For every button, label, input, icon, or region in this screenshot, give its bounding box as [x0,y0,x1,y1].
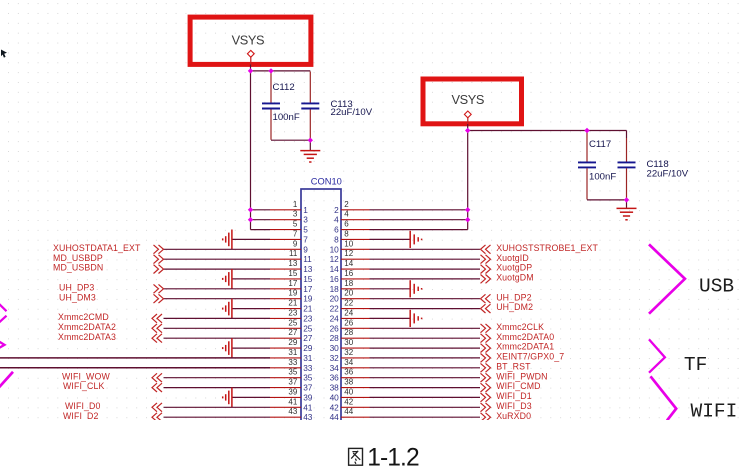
net label WIFI_PWDN chevron [481,373,491,382]
svg-text:29: 29 [303,343,313,353]
connector CON10 box [301,189,341,424]
svg-text:8: 8 [334,234,339,244]
net label WIFI_D3 chevron [481,403,491,412]
svg-text:4: 4 [334,215,339,225]
ground below C113 [300,151,320,162]
pin 39 stub [270,396,301,398]
svg-text:14: 14 [330,264,340,274]
svg-text:26: 26 [330,323,340,333]
pin 9 stub [270,248,301,250]
wire pin 39 to ground [232,396,270,398]
svg-text:35: 35 [303,373,313,383]
svg-text:27: 27 [288,328,297,337]
pin 23 stub [270,317,301,319]
capacitor C113 [301,72,319,140]
svg-text:23: 23 [303,313,313,323]
svg-text:37: 37 [303,383,313,393]
pin 3 stub [270,219,301,221]
pin 20 stub [341,298,370,300]
clipped chevron fragment C (left edge) [0,372,13,389]
pin numbers row 21/22 [288,299,353,314]
net label XuotgID chevron [481,255,491,264]
svg-text:1: 1 [303,205,308,215]
pin 13 stub [270,268,301,270]
wire pin 5 to VSYS1 [251,229,271,231]
pin numbers row 3/4 [293,210,349,225]
pin 2 stub [341,209,370,211]
svg-text:WIFI_WOW: WIFI_WOW [62,371,110,381]
wire pin 6 to VSYS2 [370,229,468,231]
svg-text:28: 28 [344,328,353,337]
junction pin 4 [465,217,470,222]
ground at pin 15 [223,269,232,289]
svg-text:30: 30 [330,343,340,353]
pin 4 stub [341,219,370,221]
svg-text:22uF/10V: 22uF/10V [647,169,689,180]
svg-text:27: 27 [303,333,313,343]
wire pin 40 [370,396,481,398]
wire pin 36 [370,377,481,379]
svg-text:44: 44 [344,407,353,416]
net label XuRXD0 chevron [481,413,491,422]
pin 42 stub [341,406,370,408]
svg-text:22uF/10V: 22uF/10V [331,107,373,118]
svg-text:18: 18 [330,284,340,294]
pin numbers row 41/42 [288,397,353,412]
pin numbers row 27/28 [288,328,353,343]
pin 17 stub [270,288,301,290]
svg-text:XUHOSTSTROBE1_EXT: XUHOSTSTROBE1_EXT [496,243,598,253]
svg-text:16: 16 [330,274,340,284]
svg-text:3: 3 [293,210,298,219]
svg-text:39: 39 [288,387,297,396]
net label BT_RST chevron [481,363,491,372]
net label Xmmc2CLK chevron [481,324,491,333]
svg-text:38: 38 [344,378,353,387]
svg-text:26: 26 [344,318,353,327]
pin 44 stub [341,416,370,418]
svg-text:40: 40 [330,392,340,402]
net label Xmmc2DATA0 chevron [481,334,491,343]
svg-text:35: 35 [288,368,297,377]
pin 38 stub [341,387,370,389]
svg-text:WIFI_D2: WIFI_D2 [63,411,99,420]
pin 12 stub [341,258,370,260]
pin 28 stub [341,337,370,339]
power port VSYS (left) diamond pin [247,50,254,57]
wire pin 27 [164,337,271,339]
pin numbers row 43/44 [288,407,353,422]
wire pin 37 [164,387,271,389]
pin 30 stub [341,347,370,349]
wire pin 19 [164,298,271,300]
wire C118 bottom to ground [626,200,628,208]
pin 37 stub [270,387,301,389]
svg-text:21: 21 [303,304,313,314]
WIFI port chevron [651,376,677,420]
svg-text:4: 4 [344,210,349,219]
wire pin 44 [370,416,481,418]
svg-text:29: 29 [288,338,297,347]
svg-text:31: 31 [288,348,297,357]
svg-text:38: 38 [330,383,340,393]
svg-text:40: 40 [344,387,353,396]
svg-text:34: 34 [330,363,340,373]
svg-text:10: 10 [330,244,340,254]
wire pin 43 [164,416,271,418]
net label WIFI_CMD chevron [481,383,491,392]
svg-text:UH_DP3: UH_DP3 [59,282,94,292]
clipped chevron fragment B (left edge) [0,342,5,349]
pin numbers row 5/6 [293,220,349,235]
pin 15 stub [270,278,301,280]
svg-text:22: 22 [344,299,353,308]
wire pin 30 [370,347,481,349]
svg-text:Xmmc2DATA1: Xmmc2DATA1 [496,342,554,352]
pin numbers row 37/38 [288,378,353,393]
svg-text:31: 31 [303,353,313,363]
svg-text:36: 36 [330,373,340,383]
pin 11 stub [270,258,301,260]
wire pin 33 to page edge [0,367,270,369]
junction pin 3 [248,217,253,222]
stray cursor mark [1,50,7,58]
net label WIFI_WOW chevron [152,373,162,382]
pin numbers row 33/34 [288,358,353,373]
wire pin 11 [164,258,271,260]
power port VSYS (right) diamond pin [464,111,471,118]
svg-text:20: 20 [344,289,353,298]
pin 29 stub [270,347,301,349]
wire VSYS1 diamond to box bottom [250,57,252,67]
net label UH_DP2 chevron [481,294,491,303]
ground at pin 24 [410,310,421,327]
ground at pin 18 [410,280,421,297]
ground at pin 8 [410,231,421,248]
net label UH_DM2 chevron [481,304,491,313]
wire pin 1 to VSYS1 [251,209,271,211]
wire pin 25 [164,327,271,329]
wire pin 35 [164,377,271,379]
pin 41 stub [270,406,301,408]
wire VSYS2 horizontal to C117/C118 [468,130,627,132]
svg-text:22: 22 [330,304,340,314]
svg-text:18: 18 [344,279,353,288]
pin 26 stub [341,327,370,329]
ground at pin 7 [223,230,232,250]
svg-text:20: 20 [330,294,340,304]
svg-text:33: 33 [303,363,313,373]
svg-text:25: 25 [288,318,297,327]
svg-text:15: 15 [303,274,313,284]
wire C112 bottom to C113 [271,139,310,141]
svg-text:Xmmc2CLK: Xmmc2CLK [496,322,544,332]
pin numbers row 31/32 [288,348,353,363]
junction VSYS1 top [248,68,253,73]
wire pin 13 [164,268,271,270]
svg-text:37: 37 [288,378,297,387]
pin 19 stub [270,298,301,300]
svg-text:21: 21 [288,299,297,308]
pin 33 stub [270,367,301,369]
svg-text:28: 28 [330,333,340,343]
svg-text:12: 12 [330,254,340,264]
wire VSYS1 horizontal to C112/C113 [251,70,311,72]
net label MD_USBDN chevron [154,265,164,274]
svg-text:7: 7 [293,229,298,238]
svg-text:1: 1 [293,200,298,209]
svg-text:6: 6 [344,220,349,229]
svg-text:32: 32 [330,353,340,363]
svg-text:11: 11 [303,254,312,264]
pin numbers row 17/18 [288,279,353,294]
svg-text:TF: TF [684,354,707,376]
power port VSYS (left) red box [190,17,311,64]
ground at pin 39 [223,388,232,408]
power port VSYS (right) red box [423,79,522,124]
svg-text:24: 24 [344,308,353,317]
svg-text:15: 15 [288,269,297,278]
svg-text:UH_DM3: UH_DM3 [59,292,96,302]
svg-text:13: 13 [288,259,297,268]
svg-text:11: 11 [289,249,298,258]
svg-text:8: 8 [344,229,349,238]
svg-text:WIFI_D3: WIFI_D3 [496,401,532,411]
svg-text:14: 14 [344,259,353,268]
pin 34 stub [341,367,370,369]
pin numbers row 13/14 [288,259,353,274]
net label UH_DM3 chevron [154,294,164,303]
svg-text:17: 17 [288,279,297,288]
svg-text:WIFI_CLK: WIFI_CLK [63,381,105,391]
pin 25 stub [270,327,301,329]
svg-text:WIFI_D0: WIFI_D0 [65,401,101,411]
pin 43 stub [270,416,301,418]
svg-text:33: 33 [288,358,297,367]
pin 5 stub [270,229,301,231]
svg-text:34: 34 [344,358,353,367]
svg-text:23: 23 [288,308,297,317]
svg-text:XuotgID: XuotgID [496,253,529,263]
pin numbers row 39/40 [288,387,353,402]
net label UH_DP3 chevron [154,284,164,293]
wire pin 24 to ground [370,317,411,319]
wire C113 bottom to ground [309,140,311,150]
svg-text:6: 6 [334,225,339,235]
svg-text:19: 19 [288,289,297,298]
pin 21 stub [270,308,301,310]
wire pin 18 to ground [370,288,411,290]
net label WIFI_CLK chevron [152,383,162,392]
ground at pin 21 [223,299,232,319]
net label WIFI_D2 chevron [152,413,162,422]
svg-text:13: 13 [303,264,313,274]
pin 36 stub [341,377,370,379]
pin numbers row 11/12 [289,249,354,264]
wire pin 22 [370,308,481,310]
wire pin 32 [370,357,481,359]
pin numbers row 9/10 [293,239,354,254]
junction VSYS2 top [465,128,470,133]
wire pin 42 [370,406,481,408]
svg-text:3: 3 [303,215,308,225]
svg-text:10: 10 [344,239,353,248]
svg-text:16: 16 [344,269,353,278]
svg-text:2: 2 [344,200,349,209]
svg-text:MD_USBDN: MD_USBDN [53,263,103,273]
svg-text:9: 9 [303,244,308,254]
wire VSYS2 diamond to box bottom [467,118,469,127]
svg-text:41: 41 [303,402,313,412]
svg-text:44: 44 [330,412,340,420]
pin numbers row 35/36 [288,368,353,383]
wire pin 38 [370,387,481,389]
svg-text:XuotgDM: XuotgDM [496,273,534,283]
svg-text:USB: USB [699,275,734,297]
pin numbers row 19/20 [288,289,353,304]
svg-text:36: 36 [344,368,353,377]
wire pin 8 to ground [370,238,411,240]
pin numbers row 29/30 [288,338,353,353]
junction C117 top [584,128,589,133]
svg-text:UH_DP2: UH_DP2 [496,292,531,302]
junction pin 2 [465,207,470,212]
svg-text:UH_DM2: UH_DM2 [496,302,533,312]
pin 10 stub [341,248,370,250]
svg-text:Xmmc2DATA2: Xmmc2DATA2 [58,322,116,332]
wire pin 2 to VSYS2 [370,209,468,211]
pin numbers row 7/8 [293,229,349,244]
svg-text:41: 41 [288,397,297,406]
svg-text:42: 42 [344,397,353,406]
net label Xmmc2DATA3 chevron [152,334,162,343]
svg-text:VSYS: VSYS [452,92,485,107]
net label Xmmc2CMD chevron [152,314,162,323]
pin numbers row 1/2 [293,200,349,215]
svg-text:100nF: 100nF [589,171,616,182]
caption figure number [0,420,745,472]
svg-text:43: 43 [303,412,313,420]
svg-text:WIFI_D1: WIFI_D1 [496,391,532,401]
pin 18 stub [341,288,370,290]
net label MD_USBDP chevron [154,255,164,264]
wire pin 9 [164,248,271,250]
wire pin 17 [164,288,271,290]
wire pin 34 [370,367,481,369]
pin 6 stub [341,229,370,231]
svg-text:C117: C117 [589,139,611,150]
wire pin 21 to ground [232,308,270,310]
wire VSYS2 vertical down to connector [467,124,469,230]
ground at pin 29 [223,338,232,358]
net label XuotgDM chevron [481,275,491,284]
svg-text:Xmmc2DATA3: Xmmc2DATA3 [58,332,116,342]
svg-text:VSYS: VSYS [232,33,265,48]
pin 27 stub [270,337,301,339]
svg-text:7: 7 [303,234,308,244]
capacitor C117 [578,131,596,199]
svg-text:100nF: 100nF [273,112,300,123]
wire pin 15 to ground [232,278,270,280]
junction C112 top [268,68,273,73]
net label WIFI_D0 chevron [152,403,162,412]
svg-text:5: 5 [293,220,298,229]
svg-text:WIFI: WIFI [691,401,738,420]
pin 7 stub [270,238,301,240]
wire pin 4 to VSYS2 [370,219,468,221]
wire pin 20 [370,298,481,300]
wire pin 3 to VSYS1 [251,219,271,221]
ground below C118 [617,208,637,219]
wire pin 16 [370,278,481,280]
wire pin 14 [370,268,481,270]
net label WIFI_D1 chevron [481,393,491,402]
pin numbers row 25/26 [288,318,353,333]
wire pin 29 to ground [232,347,270,349]
wire pin 7 to ground [232,238,270,240]
svg-text:42: 42 [330,402,340,412]
svg-text:32: 32 [344,348,353,357]
junction C117/C118 bottom [624,197,629,202]
pin 24 stub [341,317,370,319]
net label XuotgDP chevron [481,265,491,274]
pin 8 stub [341,238,370,240]
junction C113 bottom [308,138,313,143]
pin 14 stub [341,268,370,270]
svg-text:BT_RST: BT_RST [496,361,531,371]
net label XEINT7/GPX0_7 chevron [481,354,491,363]
wire pin 26 [370,327,481,329]
svg-text:MD_USBDP: MD_USBDP [53,253,103,263]
svg-text:25: 25 [303,323,313,333]
wire pin 23 [164,317,271,319]
wire pin 12 [370,258,481,260]
pin 40 stub [341,396,370,398]
TF port chevron [649,339,665,372]
svg-text:Xmmc2CMD: Xmmc2CMD [58,312,109,322]
USB port chevron [649,244,685,313]
wire pin 31 to page edge [0,357,270,359]
svg-text:C112: C112 [273,82,295,93]
capacitor C112 [262,72,280,140]
svg-text:XUHOSTDATA1_EXT: XUHOSTDATA1_EXT [53,243,141,253]
svg-text:Xmmc2DATA0: Xmmc2DATA0 [496,332,554,342]
svg-text:XuRXD0: XuRXD0 [496,411,531,420]
svg-text:WIFI_PWDN: WIFI_PWDN [496,371,547,381]
clipped chevron fragment A (left edge) [0,304,7,323]
svg-text:39: 39 [303,392,313,402]
net label XUHOSTDATA1_EXT chevron [154,245,164,254]
svg-text:19: 19 [303,294,313,304]
svg-text:5: 5 [303,225,308,235]
pin 1 stub [270,209,301,211]
pin 22 stub [341,308,370,310]
junction pin 1 [248,207,253,212]
svg-text:2: 2 [334,205,339,215]
svg-text:1-1.2: 1-1.2 [367,444,419,471]
pin 31 stub [270,357,301,359]
svg-text:12: 12 [344,249,353,258]
pin 35 stub [270,377,301,379]
svg-text:17: 17 [303,284,313,294]
wire C117 bottom to C118 [587,199,627,201]
net label Xmmc2DATA1 chevron [481,344,491,353]
wire pin 10 [370,248,481,250]
svg-text:30: 30 [344,338,353,347]
pin 32 stub [341,357,370,359]
wire pin 41 [164,406,271,408]
net label XUHOSTSTROBE1_EXT chevron [481,245,491,254]
